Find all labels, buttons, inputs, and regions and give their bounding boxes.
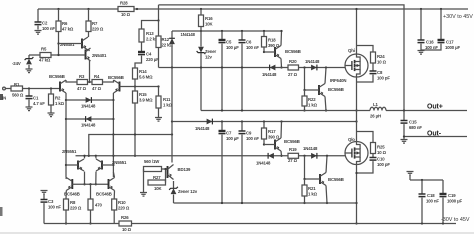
svg-text:BC556B: BC556B — [328, 177, 344, 182]
svg-text:220 Ω: 220 Ω — [70, 206, 82, 211]
svg-text:27 Ω: 27 Ω — [288, 72, 298, 77]
wire +V top rail — [38, 8, 118, 10]
wire upper bias top rail — [172, 30, 282, 32]
wire right base to R14 R15 node — [120, 86, 159, 88]
wire left emitter to R3 — [66, 80, 77, 82]
resistor R15 3.9M — [134, 87, 136, 92]
wire output bus — [201, 110, 370, 112]
svg-text:100 nF: 100 nF — [246, 45, 259, 50]
wire BC546 right collector up — [113, 172, 114, 178]
capacitor C19 1000uF supply — [442, 180, 444, 194]
resistor R20 27 — [288, 65, 299, 70]
svg-text:Qhi: Qhi — [348, 48, 355, 53]
svg-text:BD139: BD139 — [178, 167, 192, 172]
transistor Qhi IRF640N — [356, 9, 358, 54]
svg-text:1N4148: 1N4148 — [181, 32, 196, 37]
svg-text:10K: 10K — [154, 186, 163, 191]
wire 2N5551 right collector to gate rail — [95, 156, 97, 159]
capacitor C7 100uF — [221, 122, 223, 132]
resistor 470 from bases — [90, 184, 92, 199]
wire left collector down — [65, 93, 67, 178]
resistor R22 1k upper protection — [302, 96, 307, 106]
ground below R2 — [48, 113, 55, 117]
svg-text:100 nF: 100 nF — [48, 205, 61, 210]
svg-text:47 kΩ: 47 kΩ — [62, 26, 74, 31]
svg-text:10 Ω: 10 Ω — [122, 227, 132, 232]
resistor R11 1k — [158, 87, 160, 97]
svg-text:100 pF: 100 pF — [377, 162, 390, 167]
wire lower gate drive rail — [76, 155, 346, 157]
diode 1N4148 lower bias — [207, 119, 213, 125]
diode 1N4148 clamp upper — [66, 99, 113, 101]
svg-text:R4: R4 — [94, 74, 100, 79]
resistor R27 10K preset — [148, 180, 166, 185]
diode 1N4148 upper drive right — [311, 65, 317, 71]
svg-text:BC556B: BC556B — [108, 75, 124, 80]
svg-text:100 nF: 100 nF — [42, 26, 55, 31]
svg-text:+30V to 45V: +30V to 45V — [443, 14, 473, 20]
svg-text:2N5401: 2N5401 — [60, 42, 75, 47]
capacitor C5 100uF — [221, 31, 223, 40]
svg-text:R21: R21 — [308, 186, 316, 191]
wire 560 left column to ground — [143, 169, 145, 192]
wire input to diff base — [23, 88, 61, 90]
wire BC546 bases — [72, 183, 108, 185]
svg-text:100 µF: 100 µF — [226, 45, 239, 50]
wire Qlo drain down — [356, 165, 358, 224]
svg-text:100 nF: 100 nF — [246, 136, 259, 141]
svg-text:R24: R24 — [377, 54, 385, 59]
resistor 560/1W — [144, 167, 162, 172]
zener 12v lower — [173, 181, 175, 188]
wire feedback jog to R13 — [142, 5, 159, 29]
svg-text:1 kΩ: 1 kΩ — [308, 192, 318, 197]
svg-text:R27: R27 — [153, 175, 161, 180]
svg-text:10 Ω: 10 Ω — [377, 150, 387, 155]
resistor R5 47k — [40, 53, 51, 58]
svg-text:1N4148: 1N4148 — [303, 146, 318, 151]
svg-text:BC556B: BC556B — [328, 87, 344, 92]
svg-text:47 Ω: 47 Ω — [92, 86, 102, 91]
diode 1N4148 bias column top — [171, 31, 173, 38]
wire 2N5551 left emitter down — [84, 172, 86, 185]
wire BC546 left collector up — [65, 178, 67, 180]
svg-text:47 Ω: 47 Ω — [77, 86, 87, 91]
capacitor C8 100pF — [372, 63, 374, 71]
resistor R28 10 Ohm in +V rail — [118, 7, 134, 12]
svg-text:560 Ω: 560 Ω — [12, 93, 24, 98]
svg-text:1 kΩ: 1 kΩ — [55, 101, 65, 106]
svg-text:1N4148: 1N4148 — [195, 126, 210, 131]
capacitor C15 680nF zobel — [403, 111, 405, 121]
wire 2N5551 left base — [66, 164, 78, 166]
svg-text:L1: L1 — [373, 102, 379, 107]
svg-text:R22: R22 — [308, 97, 316, 102]
wire 2N5551 right base — [102, 164, 113, 166]
svg-text:Out-: Out- — [427, 131, 442, 138]
zener 12v upper bias — [200, 31, 202, 47]
svg-text:R11: R11 — [163, 97, 171, 102]
svg-text:10 Ω: 10 Ω — [121, 12, 131, 17]
svg-text:1000 µF: 1000 µF — [445, 45, 461, 50]
svg-text:C16: C16 — [426, 40, 434, 45]
svg-text:BC556B: BC556B — [49, 74, 65, 79]
wire upper protection emitter — [325, 68, 326, 84]
svg-text:C2: C2 — [42, 21, 48, 26]
svg-text:1000 µF: 1000 µF — [447, 198, 463, 203]
svg-text:10K: 10K — [205, 22, 214, 27]
svg-text:C15: C15 — [409, 120, 417, 125]
svg-text:C18: C18 — [427, 193, 435, 198]
svg-text:1N4148: 1N4148 — [81, 123, 96, 128]
wire lower protection base — [305, 156, 321, 179]
transistor BD139 — [168, 165, 174, 180]
svg-text:C4: C4 — [146, 52, 152, 57]
svg-text:1 kΩ: 1 kΩ — [308, 103, 318, 108]
svg-text:3.9 MΩ: 3.9 MΩ — [139, 98, 153, 103]
svg-text:R12: R12 — [162, 37, 170, 42]
transistor BC556B lower protection — [320, 173, 326, 186]
svg-text:R8: R8 — [70, 200, 76, 205]
resistor R21 1k lower protection — [302, 185, 307, 196]
wire Qhi source to output — [356, 77, 358, 111]
transistor Q1 2N5401 — [82, 37, 88, 50]
wire upper gate drive rail — [159, 67, 346, 69]
wire lower protection emitter — [326, 186, 327, 204]
svg-text:R5: R5 — [41, 47, 47, 52]
diode 1N4148 upper drive left — [270, 65, 276, 71]
wire -24V zener branch and R5 — [29, 54, 40, 56]
svg-text:1N4148: 1N4148 — [81, 104, 96, 109]
resistor R1 560 — [11, 86, 23, 91]
svg-text:2N5551: 2N5551 — [112, 160, 127, 165]
svg-text:4.7 nF: 4.7 nF — [33, 101, 45, 106]
svg-text:1N4148: 1N4148 — [262, 72, 277, 77]
svg-text:R10: R10 — [118, 200, 126, 205]
capacitor C6 100nF — [241, 31, 243, 40]
svg-text:IRF640N: IRF640N — [330, 78, 346, 83]
svg-text:R20: R20 — [289, 59, 297, 64]
svg-text:220 µF: 220 µF — [146, 57, 159, 62]
diode 1N4148 clamp lower — [66, 118, 113, 120]
svg-text:C1: C1 — [33, 96, 39, 101]
wire BC546 right emitter to R10 — [113, 191, 115, 200]
wire driver collector column — [112, 135, 114, 156]
resistor R7 220 — [87, 8, 89, 10]
svg-text:Zener 12v: Zener 12v — [178, 189, 198, 194]
svg-text:BC556B: BC556B — [284, 139, 300, 144]
wire upper protection collector — [325, 97, 326, 111]
svg-text:C6: C6 — [246, 40, 252, 45]
svg-text:R28: R28 — [120, 1, 128, 6]
svg-text:5.6 MΩ: 5.6 MΩ — [139, 75, 153, 80]
capacitor C1 4.7nF input filter — [28, 89, 30, 97]
svg-text:100 nF: 100 nF — [426, 198, 439, 203]
capacitor C18 100nF supply — [410, 179, 443, 181]
transistor BC556B upper protection — [319, 84, 325, 97]
resistor R24 10 gate-drain network — [357, 46, 374, 53]
resistor R3 47 — [77, 80, 88, 85]
wire lower regulator base — [263, 143, 265, 145]
svg-text:R2: R2 — [55, 96, 61, 101]
wire upper regulator base — [263, 51, 265, 53]
wire Q2 collector to diff pair tail — [89, 60, 91, 82]
svg-text:C3: C3 — [48, 199, 54, 204]
ground below C15 — [401, 140, 408, 144]
wire input — [6, 88, 12, 90]
capacitor C17 1000uF supply — [440, 8, 442, 10]
resistor R26 10 ground lift — [119, 221, 132, 226]
svg-text:C5: C5 — [226, 40, 232, 45]
transistor 2N5551 left — [78, 159, 84, 171]
svg-text:1N4148: 1N4148 — [256, 161, 271, 166]
wire lower regulator emitter to bias rail — [280, 122, 283, 139]
wire upper regulator collector to gate rail — [280, 59, 283, 68]
ground below -24V zener — [26, 69, 33, 73]
svg-text:R6: R6 — [62, 21, 68, 26]
svg-text:R19: R19 — [289, 147, 297, 152]
svg-text:390 Ω: 390 Ω — [268, 135, 280, 140]
left edge mark — [0, 207, 3, 216]
svg-text:IN: IN — [2, 96, 6, 101]
transistor Q2 2N5401 — [86, 48, 91, 61]
svg-text:R15: R15 — [139, 92, 147, 97]
svg-text:Qlo: Qlo — [348, 137, 355, 142]
svg-text:470: 470 — [95, 203, 103, 208]
svg-text:BC556B: BC556B — [285, 49, 301, 54]
svg-text:680 nF: 680 nF — [409, 125, 422, 130]
svg-text:1 kΩ: 1 kΩ — [163, 103, 173, 108]
svg-text:C9: C9 — [246, 131, 252, 136]
svg-text:Zener: Zener — [205, 49, 217, 54]
svg-text:1N4148: 1N4148 — [305, 59, 320, 64]
svg-text:R3: R3 — [79, 74, 85, 79]
transistor BC556B upper bias regulator — [275, 46, 281, 59]
wire VAS collector bus — [89, 135, 172, 156]
svg-text:220 Ω: 220 Ω — [118, 206, 130, 211]
resistor R16 10K from +V — [200, 8, 202, 10]
svg-text:R1: R1 — [14, 82, 20, 87]
resistor R6 47k — [57, 8, 59, 10]
diode 1N4148 lower drive left — [268, 153, 274, 159]
wire lower drive return bus — [174, 202, 357, 204]
svg-text:BC546B: BC546B — [96, 192, 112, 197]
svg-text:C8: C8 — [377, 70, 383, 75]
svg-text:R25: R25 — [377, 145, 385, 150]
svg-text:47 kΩ: 47 kΩ — [39, 58, 51, 63]
capacitor C16 100nF supply — [420, 8, 422, 10]
ground above C18 — [407, 172, 414, 176]
wire Q1 collector to Q2 emitter — [88, 49, 90, 51]
transistor right BC556B of input pair — [114, 80, 120, 93]
transistor BC556B lower bias regulator — [275, 138, 281, 151]
svg-text:100 pF: 100 pF — [377, 76, 390, 81]
svg-text:100 µF: 100 µF — [226, 136, 239, 141]
wire lower bias rail — [172, 121, 357, 123]
zener diode -24V reference — [28, 55, 30, 59]
wire lower regulator collector to gate rail — [280, 151, 283, 156]
wire -V bottom rail right — [132, 223, 457, 225]
wire -V bottom rail left — [44, 223, 119, 225]
ground below C1 — [26, 107, 33, 111]
svg-text:100 nF: 100 nF — [425, 45, 438, 50]
wire R4 to right emitter — [103, 80, 114, 82]
svg-text:C19: C19 — [448, 193, 456, 198]
transistor 2N5551 right — [96, 159, 102, 171]
svg-text:R26: R26 — [121, 215, 129, 220]
wire 2N5551 left collector to VAS bus — [84, 156, 86, 159]
svg-text:C17: C17 — [446, 40, 454, 45]
resistor R17 390 — [263, 122, 265, 129]
wire lower protection collector — [326, 156, 327, 173]
transistor left BC556B of input pair — [60, 80, 66, 93]
diode 1N4148 lower drive right — [311, 153, 317, 159]
svg-text:R18: R18 — [268, 38, 276, 43]
svg-text:220 Ω: 220 Ω — [92, 26, 104, 31]
input terminal IN — [0, 94, 3, 100]
svg-text:-24V: -24V — [12, 61, 21, 66]
svg-text:12v: 12v — [205, 55, 213, 60]
wire BC546 left emitter to R8 — [65, 191, 67, 200]
wire 2N5551 right emitter down — [95, 172, 97, 185]
capacitor C4 220uF feedback — [141, 42, 143, 52]
svg-text:R7: R7 — [92, 21, 98, 26]
wire upper protection base — [305, 68, 320, 91]
resistor R10 220 — [112, 199, 117, 210]
capacitor C3 100nF — [41, 191, 48, 195]
resistor R18 390 — [263, 31, 265, 37]
ground below C16 — [418, 51, 425, 55]
capacitor C2 100nF rail decoupling — [37, 9, 39, 22]
bottom edge line — [0, 232, 474, 234]
resistor R8 220 — [64, 199, 69, 210]
svg-text:-30V to 45V: -30V to 45V — [441, 217, 470, 223]
capacitor C10 100pF — [372, 154, 374, 158]
inductor L1 26uH — [370, 107, 386, 110]
ground below R11 — [155, 118, 162, 122]
svg-text:R14: R14 — [139, 69, 147, 74]
svg-text:2N5401: 2N5401 — [92, 53, 107, 58]
wire upper regulator emitter to bias rail — [280, 31, 283, 46]
svg-text:C10: C10 — [377, 157, 385, 162]
wire bias column — [171, 68, 173, 163]
resistor R19 27 — [288, 153, 299, 158]
svg-text:27 Ω: 27 Ω — [288, 158, 298, 163]
resistor R14 5.6M — [133, 68, 138, 79]
wire R27 right to base — [165, 169, 167, 183]
transistor BC546B left driver — [66, 178, 72, 191]
svg-text:R16: R16 — [205, 16, 213, 21]
svg-text:26 µH: 26 µH — [370, 114, 381, 119]
resistor R2 1k input return — [50, 89, 52, 95]
svg-text:560 /1W: 560 /1W — [144, 159, 160, 164]
svg-text:Out+: Out+ — [427, 104, 443, 111]
transistor BC546B right driver — [109, 178, 115, 191]
svg-text:C7: C7 — [226, 131, 232, 136]
svg-text:R17: R17 — [268, 129, 276, 134]
wire Q1 base — [57, 42, 59, 44]
wire diff tail node — [88, 81, 90, 83]
resistor R4 47 — [92, 80, 103, 85]
svg-text:10 Ω: 10 Ω — [377, 60, 387, 65]
wire right collector down — [112, 93, 114, 177]
svg-text:2N5551: 2N5551 — [62, 149, 77, 154]
wire R15 bottom to VAS node column — [134, 103, 136, 156]
ground below C2 — [35, 31, 42, 35]
svg-text:R13: R13 — [146, 31, 154, 36]
wire feedback top line — [159, 5, 405, 111]
transistor Qlo IRF9640 — [356, 111, 358, 142]
resistor R13 2.2k feedback — [139, 29, 144, 42]
capacitor C9 100nF — [241, 122, 243, 132]
resistor R25 10 — [357, 132, 374, 143]
wire Out- line — [404, 136, 467, 138]
resistor R12 22k — [158, 21, 160, 37]
ground at BD139 network — [140, 193, 147, 197]
